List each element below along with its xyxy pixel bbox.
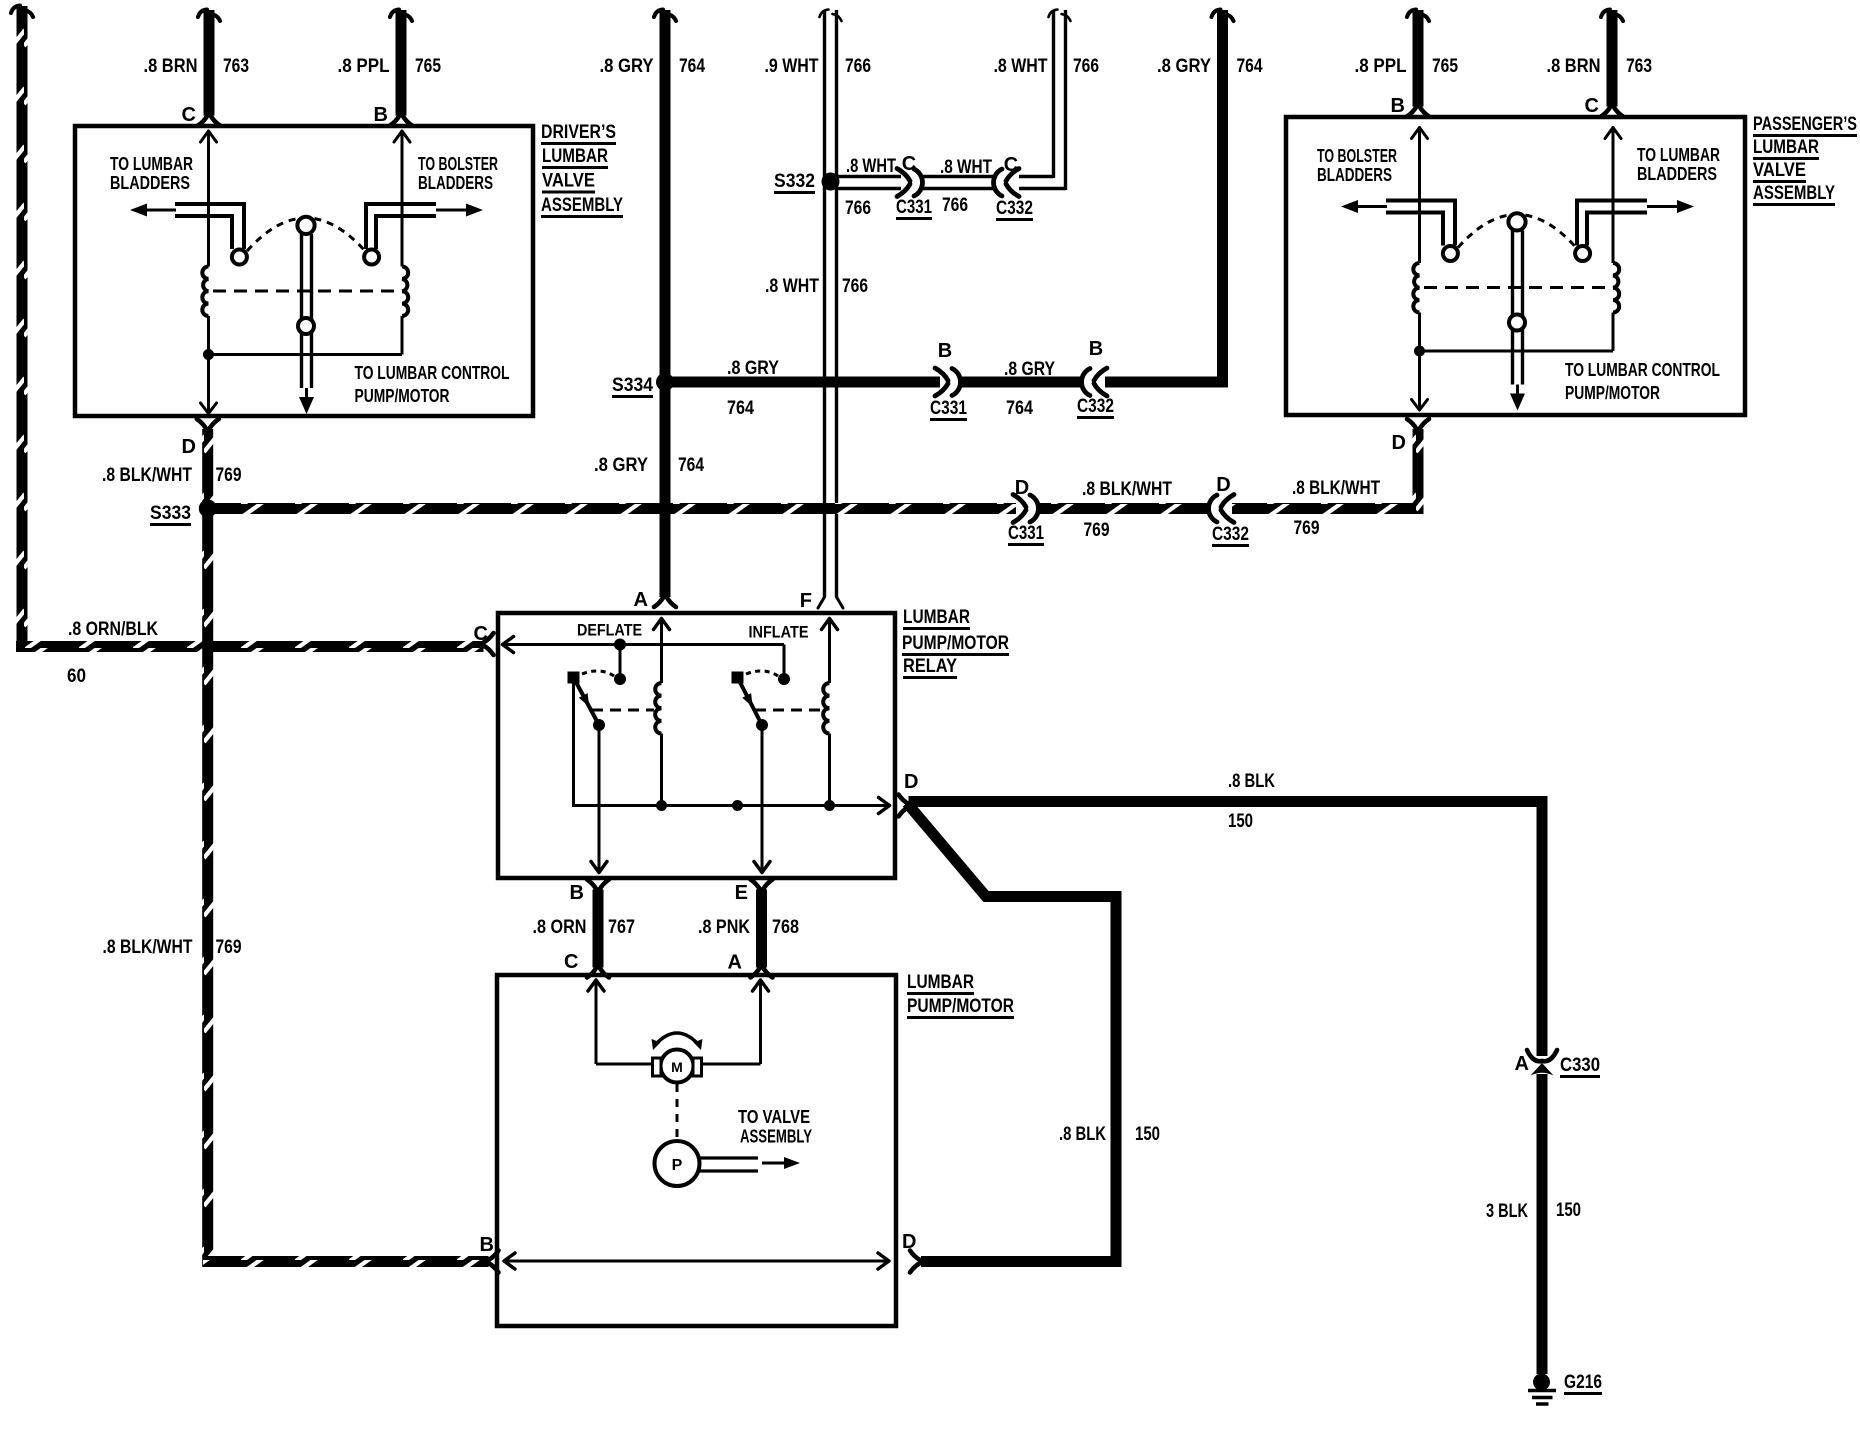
wire .9 WHT 766 vertical run to relay pin F (hollow) (823, 10, 826, 597)
wire .8 BLK/WHT 769 horizontal run S333 to C331 (213, 503, 1016, 514)
svg-text:C: C (564, 951, 578, 973)
svg-text:768: 768 (772, 917, 799, 938)
svg-text:B: B (480, 1234, 494, 1256)
svg-text:763: 763 (1626, 56, 1652, 77)
svg-text:C: C (1585, 95, 1599, 117)
ground G216 bars (1528, 1389, 1556, 1393)
relay deflate switch arm (574, 678, 600, 726)
svg-text:C331: C331 (1008, 523, 1044, 544)
wire stub relay pin E to pump pin A (.8 PNK 768) (751, 880, 761, 890)
relay rail junction dot (inflate coil) (824, 800, 835, 811)
connector fishtail at passenger pin C (1601, 107, 1611, 117)
relay inflate coil on pin F line (828, 619, 831, 683)
svg-text:767: 767 (608, 917, 635, 938)
svg-text:.8 BLK/WHT: .8 BLK/WHT (103, 937, 193, 958)
svg-text:769: 769 (1084, 520, 1110, 541)
wire .8 BLK/WHT 769 jumper C331 to C332 (1037, 503, 1210, 514)
relay C input line with arrow (502, 643, 784, 646)
svg-text:VALVE: VALVE (542, 171, 595, 192)
off-page arrow top of .8 GRY wire (654, 10, 663, 18)
relay inflate switch arm (738, 678, 763, 726)
wire .8 WHT 766 from C332 turning up (hollow) (1019, 175, 1054, 178)
pump motor feed line from pin A (759, 980, 762, 1064)
svg-text:763: 763 (223, 56, 249, 77)
svg-text:766: 766 (1073, 56, 1099, 77)
svg-text:.8 WHT: .8 WHT (846, 156, 896, 177)
svg-text:.8 GRY: .8 GRY (600, 56, 654, 77)
wire .8 GRY 764 right vertical run (1217, 10, 1228, 388)
svg-text:TO LUMBAR: TO LUMBAR (110, 154, 193, 174)
svg-text:PASSENGER’S: PASSENGER’S (1753, 114, 1857, 135)
lumbar pump/motor box (497, 975, 896, 1326)
passenger lumbar valve assembly box (1286, 117, 1745, 415)
svg-text:M: M (671, 1059, 683, 1075)
wire .8 GRY 764 from C332 to right vertical (1105, 377, 1228, 388)
svg-text:.8 PNK: .8 PNK (698, 917, 750, 938)
svg-text:.8 PPL: .8 PPL (1355, 56, 1407, 77)
svg-text:150: 150 (1135, 1124, 1160, 1145)
svg-text:.8 GRY: .8 GRY (727, 358, 779, 379)
svg-text:S332: S332 (774, 171, 815, 192)
wire .8 BLK/WHT 769 stub up to passenger pin D (1413, 429, 1424, 514)
svg-text:.8 BLK/WHT: .8 BLK/WHT (1082, 479, 1172, 500)
svg-text:.8 ORN/BLK: .8 ORN/BLK (68, 619, 158, 640)
svg-text:B: B (1391, 95, 1405, 117)
connector fishtail at passenger pin B (1407, 107, 1417, 117)
relay deflate linkage dashed line (592, 709, 654, 712)
wire .8 GRY 764 jumper C331 to C332 (959, 377, 1083, 388)
lumbar pump/motor relay box (498, 613, 895, 878)
svg-text:C: C (182, 104, 196, 126)
svg-text:DEFLATE: DEFLATE (577, 621, 642, 640)
relay inflate linkage dashed line (755, 709, 821, 712)
splice S333 dot (199, 500, 217, 518)
wire .8 BRN 763 stub to driver pin C (204, 10, 215, 116)
svg-text:BLADDERS: BLADDERS (1317, 165, 1392, 185)
wire .8 BRN 763 stub to passenger pin C (1607, 10, 1618, 107)
svg-text:TO BOLSTER: TO BOLSTER (418, 154, 498, 174)
svg-text:.8 BLK/WHT: .8 BLK/WHT (1292, 478, 1380, 499)
svg-text:RELAY: RELAY (903, 656, 957, 677)
svg-text:D: D (904, 771, 918, 793)
relay inflate moving contact dot (756, 719, 768, 731)
wire .8 PPL 765 stub to passenger pin B (1413, 10, 1424, 107)
wire .8 BLK/WHT 769 bottom run to pump pin B (203, 1256, 489, 1267)
svg-text:ASSEMBLY: ASSEMBLY (541, 195, 623, 216)
svg-text:D: D (1392, 432, 1406, 454)
svg-text:150: 150 (1556, 1200, 1581, 1221)
svg-text:D: D (902, 1231, 916, 1253)
svg-text:.8 PPL: .8 PPL (338, 56, 390, 77)
connector fishtail at passenger pin D (1407, 419, 1417, 429)
connector fishtail at relay pin D (899, 795, 909, 805)
connector C332 pin D (1221, 495, 1234, 508)
off-page arrow top of .8 BRN wire (198, 10, 207, 18)
svg-text:G216: G216 (1564, 1372, 1602, 1393)
relay C line branch down to inflate contact (783, 645, 786, 680)
svg-text:D: D (182, 436, 196, 458)
svg-text:764: 764 (727, 398, 754, 419)
ground G216 dot (1533, 1374, 1550, 1391)
wire .8 WHT 766 branch S332 to C331 (hollow) (836, 175, 901, 178)
svg-text:C: C (474, 623, 488, 645)
svg-text:F: F (800, 590, 812, 612)
relay common rail to pin D (574, 683, 890, 806)
svg-text:60: 60 (67, 666, 86, 687)
svg-text:A: A (634, 589, 648, 611)
svg-text:150: 150 (1228, 811, 1253, 832)
svg-text:B: B (1089, 338, 1103, 360)
connector fishtail at pump pin D (910, 1251, 920, 1261)
svg-text:.8 BLK: .8 BLK (1228, 771, 1275, 792)
wire .8 BLK/WHT 769 long vertical run (202, 429, 213, 1267)
svg-text:769: 769 (216, 465, 242, 486)
connector fishtail striped wire at pump pin B (489, 1251, 499, 1261)
connector C331 pin D (1013, 495, 1026, 508)
svg-text:.8 BLK/WHT: .8 BLK/WHT (102, 465, 192, 486)
connector C330 (male half) (1531, 1063, 1554, 1076)
svg-text:DRIVER’S: DRIVER’S (541, 122, 616, 143)
motor M circle with brushes (661, 1050, 694, 1083)
off-page arrow top of right .8 GRY wire (1212, 10, 1221, 18)
svg-text:764: 764 (1237, 56, 1263, 77)
relay deflate dashed contact arc (582, 671, 614, 676)
svg-text:BLADDERS: BLADDERS (110, 173, 190, 193)
connector end at relay pin C (484, 633, 494, 643)
relay deflate armature pivot (568, 672, 580, 684)
svg-text:D: D (1216, 474, 1230, 496)
svg-text:PUMP/MOTOR: PUMP/MOTOR (902, 633, 1009, 654)
wire .8 BLK 150 right vertical to C330 (1537, 802, 1548, 1057)
wire .8 ORN/BLK 60 left-edge vertical run (17, 6, 28, 652)
svg-text:.8 WHT: .8 WHT (765, 276, 819, 297)
connector C331 pin C (897, 169, 910, 182)
svg-text:766: 766 (842, 276, 868, 297)
svg-text:TO LUMBAR CONTROL: TO LUMBAR CONTROL (1565, 360, 1720, 380)
svg-text:TO LUMBAR: TO LUMBAR (1637, 145, 1720, 165)
connector fishtail at driver pin C (198, 116, 208, 126)
svg-text:A: A (1515, 1053, 1529, 1075)
svg-text:764: 764 (678, 455, 704, 476)
svg-text:.8 BLK: .8 BLK (1059, 1124, 1106, 1145)
relay rail junction dot (deflate coil) (656, 800, 667, 811)
motor to pump dashed shaft (676, 1084, 679, 1140)
pump internal B-D line (504, 1260, 889, 1263)
off-page arrow top of .8 WHT stub (1049, 10, 1058, 18)
svg-text:769: 769 (1294, 518, 1320, 539)
motor rotation arrows (656, 1033, 698, 1044)
relay node on C line (deflate contact feed) (614, 639, 626, 651)
svg-text:ASSEMBLY: ASSEMBLY (1753, 183, 1835, 204)
svg-text:.8 ORN: .8 ORN (533, 917, 587, 938)
pump P circle (655, 1141, 700, 1186)
off-page arrow top of .9 WHT wire (820, 10, 829, 18)
wire .8 BLK 150 from relay D to right corner (909, 796, 1548, 807)
relay deflate coil on pin A line (660, 619, 663, 683)
svg-text:VALVE: VALVE (1753, 160, 1806, 181)
svg-text:.8 BRN: .8 BRN (144, 56, 198, 77)
wire 3 BLK 150 from C330 to G216 (1537, 1074, 1548, 1374)
wire .8 WHT 766 jumper C331 to C332 (hollow) (921, 175, 997, 178)
off-page arrow top of left-edge wire (11, 6, 20, 14)
off-page arrow top of passenger .8 PPL wire (1407, 10, 1416, 18)
off-page arrow top of .8 PPL wire (390, 10, 399, 18)
svg-text:TO VALVE: TO VALVE (738, 1107, 810, 1127)
wire .8 GRY 764 vertical run to relay pin A (660, 10, 671, 597)
svg-text:TO LUMBAR CONTROL: TO LUMBAR CONTROL (355, 363, 510, 383)
svg-text:C332: C332 (996, 198, 1033, 219)
svg-text:765: 765 (1432, 56, 1458, 77)
svg-text:S334: S334 (612, 375, 653, 396)
relay rail junction dot (inflate pivot) (732, 800, 743, 811)
svg-text:3 BLK: 3 BLK (1486, 1201, 1528, 1222)
off-page arrow top of passenger .8 BRN wire (1601, 10, 1610, 18)
svg-text:ASSEMBLY: ASSEMBLY (740, 1127, 812, 1147)
connector C332 pin B (1094, 368, 1107, 381)
connector fishtail at driver pin B (390, 116, 400, 126)
svg-text:S333: S333 (150, 503, 191, 524)
wire .8 BLK/WHT 769 from C332 to passenger pin D (1232, 503, 1424, 514)
svg-text:765: 765 (415, 56, 441, 77)
relay deflate moving contact dot (593, 719, 605, 731)
wire .8 GRY 764 branch S334 to C331 (670, 377, 940, 388)
svg-text:.8 BRN: .8 BRN (1547, 56, 1601, 77)
svg-text:769: 769 (216, 937, 242, 958)
svg-text:C331: C331 (896, 197, 932, 218)
svg-text:764: 764 (1006, 398, 1033, 419)
svg-text:C330: C330 (1560, 1055, 1600, 1076)
svg-text:LUMBAR: LUMBAR (903, 607, 970, 628)
pump motor feed line from pin C (595, 980, 598, 1064)
svg-text:LUMBAR: LUMBAR (907, 972, 974, 993)
svg-text:C332: C332 (1077, 396, 1114, 417)
svg-text:.8 WHT: .8 WHT (994, 56, 1048, 77)
splice S334 dot (656, 373, 674, 391)
svg-text:LUMBAR: LUMBAR (542, 146, 608, 167)
svg-text:C332: C332 (1212, 524, 1249, 545)
svg-text:E: E (735, 882, 748, 904)
relay inflate armature pivot (732, 672, 744, 684)
svg-text:.8 WHT: .8 WHT (940, 157, 992, 178)
connector C331 pin B (935, 368, 948, 381)
splice S332 dot (822, 173, 840, 191)
connector C330 (female half) (1527, 1050, 1557, 1061)
svg-text:BLADDERS: BLADDERS (1637, 164, 1717, 184)
svg-text:PUMP/MOTOR: PUMP/MOTOR (355, 386, 450, 406)
relay deflate fixed contact dot (614, 673, 626, 685)
relay inflate dashed contact arc (746, 671, 778, 676)
svg-text:B: B (570, 882, 584, 904)
svg-text:766: 766 (845, 56, 871, 77)
svg-text:P: P (672, 1157, 683, 1174)
wire .8 PPL 765 stub to driver pin B (396, 10, 407, 116)
svg-text:BLADDERS: BLADDERS (418, 173, 493, 193)
pump output arrow (762, 1162, 788, 1165)
svg-text:TO BOLSTER: TO BOLSTER (1317, 146, 1397, 166)
passenger valve assembly internals (solenoid valves and plunger) (1341, 127, 1694, 411)
svg-text:C331: C331 (930, 398, 967, 419)
svg-text:INFLATE: INFLATE (749, 623, 809, 642)
svg-text:.8 GRY: .8 GRY (594, 455, 648, 476)
svg-text:PUMP/MOTOR: PUMP/MOTOR (907, 996, 1014, 1017)
connector fishtail at driver pin D (197, 419, 206, 429)
svg-text:766: 766 (845, 198, 871, 219)
svg-text:764: 764 (679, 56, 705, 77)
wire .8 BLK 150 branch relay D down to pump D (907, 803, 1116, 1262)
relay inflate output line to pin E (761, 725, 764, 872)
driver lumbar valve assembly box (75, 126, 533, 416)
wire stub relay pin B to pump pin C (.8 ORN 767) (587, 880, 597, 890)
svg-text:.8 GRY: .8 GRY (1157, 56, 1211, 77)
connector fishtail at relay pin F (818, 597, 825, 608)
svg-text:A: A (728, 952, 742, 974)
svg-text:PUMP/MOTOR: PUMP/MOTOR (1565, 383, 1660, 403)
wire .8 ORN/BLK 60 horizontal run to relay pin C (16, 641, 484, 652)
svg-text:LUMBAR: LUMBAR (1753, 137, 1819, 158)
relay deflate output line to pin B (598, 725, 601, 872)
relay inflate fixed contact dot (778, 673, 790, 685)
svg-text:B: B (374, 104, 388, 126)
svg-text:.8 GRY: .8 GRY (1004, 359, 1055, 380)
pump output pipe to valve assembly (698, 1156, 758, 1159)
svg-text:C: C (902, 153, 916, 175)
connector fishtail at relay pin A (654, 597, 664, 607)
svg-text:.9 WHT: .9 WHT (765, 56, 819, 77)
svg-text:766: 766 (942, 195, 968, 216)
svg-text:D: D (1015, 477, 1029, 499)
connector C332 pin C (1006, 169, 1019, 182)
svg-text:C: C (1004, 154, 1018, 176)
svg-text:B: B (938, 340, 952, 362)
